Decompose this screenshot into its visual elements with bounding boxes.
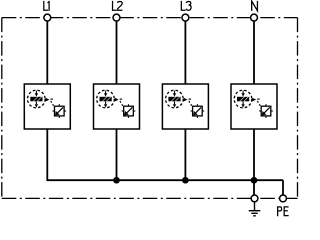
wire N terminal to arrester 4 [253,21,255,84]
label L2 [113,1,123,10]
wire arrester 1 to PE bus (with corner) [47,129,116,180]
device enclosure dash-dot border: bottom [2,197,298,199]
wire bus to ground terminal [253,180,255,195]
wire arrester 2 to PE bus [116,129,118,180]
label L1 [44,1,49,11]
junction dot L2/bus [113,177,120,184]
junction dot L3/bus [182,177,189,184]
wire L2 terminal to arrester 2 [116,21,118,84]
arrester U3 (L3) [162,84,208,129]
terminal node L1 [44,14,51,21]
ground tap node [251,195,258,202]
arrester U2 (L2) [94,84,140,129]
device enclosure dash-dot border: right [297,18,299,199]
arrester U4 (N) [231,84,277,129]
terminal node L2 [113,14,120,21]
wire bus to PE terminal (corner down) [282,180,284,195]
label PE [278,207,289,216]
device enclosure dash-dot border: top [2,17,298,19]
ground symbol [249,202,261,216]
arrester U1 (L1) [24,84,70,129]
device enclosure dash-dot border: left [1,18,3,199]
wire arrester 3 to PE bus [184,129,186,180]
wire L1 terminal to arrester 1 [46,21,48,84]
terminal node N [251,14,258,21]
label L3 [181,1,191,10]
wire L3 terminal to arrester 3 [184,21,186,84]
terminal node PE [280,195,287,202]
label N [252,1,258,11]
junction dot N/bus [251,177,258,184]
wire arrester 4 to PE bus [253,129,255,180]
PE bus wire [117,179,284,181]
terminal node L3 [182,14,189,21]
